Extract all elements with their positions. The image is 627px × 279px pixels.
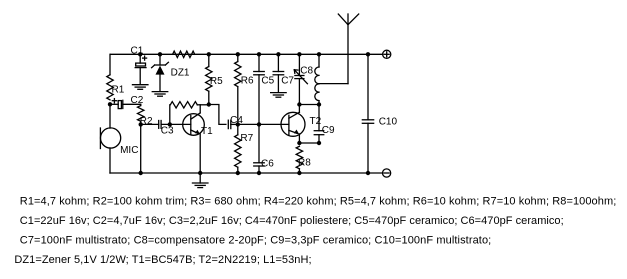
svg-text:DZ1=Zener 5,1V 1/2W; T1=BC547B: DZ1=Zener 5,1V 1/2W; T1=BC547B; T2=2N221… (14, 254, 311, 266)
node C1 top (138, 52, 142, 56)
ground DZ1 (152, 92, 168, 97)
label R7 (240, 133, 253, 144)
wire R6 bottom (237, 87, 239, 125)
antenna (319, 14, 359, 84)
node C10 top (366, 52, 370, 56)
node R2 gnd (139, 171, 143, 175)
wire collector node (299, 104, 319, 106)
wire C1 lead (139, 54, 141, 63)
svg-text:T2: T2 (310, 116, 322, 127)
label DZ1 (171, 67, 190, 78)
label T2 (310, 116, 322, 127)
svg-text:C10: C10 (379, 117, 398, 128)
svg-text:C3: C3 (161, 126, 174, 137)
label C8 (300, 66, 313, 77)
wire C4 step (209, 105, 226, 125)
wire T2 emitter (298, 134, 300, 143)
node R2/C3 (139, 122, 143, 126)
svg-text:R8: R8 (298, 157, 311, 168)
ground C7 (271, 93, 287, 98)
wire left top (109, 54, 111, 75)
label R5 (210, 76, 223, 87)
resistor R8 (296, 146, 302, 169)
capacitor C2 (110, 100, 141, 108)
svg-text:DZ1: DZ1 (171, 67, 190, 78)
wire C6 top (258, 124, 260, 162)
wire C7 gnd lead (277, 75, 279, 93)
label C3 (161, 126, 174, 137)
battery terminal - (383, 169, 391, 177)
wire T1 collector (199, 105, 201, 113)
node C6 gnd (257, 171, 261, 175)
label T1 (201, 126, 213, 137)
node R4 base (168, 122, 172, 126)
capacitor C10 (362, 120, 373, 124)
node R8 gnd (297, 171, 301, 175)
microphone MIC (100, 128, 120, 149)
wire C7 lead (277, 54, 279, 71)
resistor R6 (235, 62, 241, 87)
capacitor C4 (228, 120, 238, 128)
wire C8 bottom (298, 79, 300, 105)
wire R1 to MIC (109, 104, 111, 128)
wire C9 bottom (318, 135, 320, 143)
wire R6 lead (237, 54, 239, 61)
trimmer C8 (294, 70, 307, 84)
capacitor C9 (314, 131, 324, 135)
transistor T2 (281, 112, 305, 136)
wire T1 emitter (199, 134, 201, 173)
label parts list line 3 (20, 235, 492, 247)
wire C5 bottom (258, 75, 260, 125)
svg-text:C1: C1 (131, 45, 144, 56)
label parts list line 2 (20, 215, 564, 227)
label C5 (261, 75, 274, 86)
wire R8 bottom (298, 169, 300, 173)
wire top rail (110, 53, 382, 55)
battery terminal + (383, 50, 391, 58)
node R5 top (207, 52, 211, 56)
wire L1 lead (318, 54, 320, 67)
resistor R5 (206, 67, 212, 92)
label C6 (261, 158, 274, 169)
label C9 (322, 125, 335, 136)
wire C5 lead (258, 54, 260, 71)
resistor R7 (235, 135, 241, 168)
label R1 (112, 84, 125, 95)
node R1/C2/MIC (108, 102, 112, 106)
node R6 top (236, 52, 240, 56)
label R8 (298, 157, 311, 168)
node L1 top (317, 52, 321, 56)
svg-text:R1: R1 (112, 84, 125, 95)
capacitor C1 (135, 63, 146, 84)
wire C10 bottom lead (367, 123, 369, 173)
svg-text:C7: C7 (281, 75, 294, 86)
svg-text:MIC: MIC (120, 145, 138, 156)
svg-text:C8: C8 (300, 66, 313, 77)
label R2 (140, 116, 153, 127)
label MIC (120, 145, 138, 156)
wire R5 bottom (208, 91, 210, 104)
wire L1 bottom (318, 101, 320, 105)
svg-text:T1: T1 (201, 126, 213, 137)
label C7 (281, 75, 294, 86)
node C9 bottom (317, 141, 321, 145)
svg-text:R1=4,7 kohm; R2=100 kohm trim;: R1=4,7 kohm; R2=100 kohm trim; R3= 680 o… (20, 195, 617, 207)
capacitor C6 (254, 163, 265, 166)
wire T2 base (238, 123, 289, 125)
label parts list line 1 (20, 195, 617, 207)
node C10 gnd (366, 171, 370, 175)
node C7 top (276, 52, 280, 56)
capacitor C5 (254, 72, 265, 75)
label C2 plus (112, 99, 116, 103)
resistor R3 (173, 51, 195, 57)
wire R5 lead (208, 54, 210, 66)
capacitor C3 (141, 121, 191, 129)
wire R2 bottom (140, 121, 142, 173)
capacitor C7 (273, 72, 284, 75)
wire C2 corner (140, 104, 142, 105)
node C5 base (257, 122, 261, 126)
node T2 emitter (297, 141, 301, 145)
zener DZ1 (152, 62, 169, 91)
svg-text:C7=100nF multistrato; C8=compe: C7=100nF multistrato; C8=compensatore 2-… (20, 235, 492, 247)
wire MIC to rail (109, 148, 111, 173)
svg-text:R5: R5 (210, 76, 223, 87)
node R6/R7 base (236, 122, 240, 126)
node C8 top (297, 52, 301, 56)
node DZ1 top (158, 52, 162, 56)
node L1 bottom (317, 102, 321, 106)
wire emitter link (299, 142, 319, 144)
label parts list line 4 (14, 254, 311, 266)
svg-text:R7: R7 (240, 133, 253, 144)
wire bottom rail (110, 172, 383, 174)
inductor L1 (315, 67, 319, 101)
node R7 gnd (236, 171, 240, 175)
resistor R2 (138, 106, 144, 122)
wire R7 top (237, 124, 239, 134)
node C5 top (257, 52, 261, 56)
node T1 emitter gnd (198, 171, 202, 175)
node T2 collector (297, 102, 301, 106)
wire C6 bottom (258, 166, 260, 173)
ground T1 (192, 173, 208, 188)
ground C1 (132, 85, 148, 90)
label C10 (379, 117, 398, 128)
label C1 (131, 45, 144, 56)
resistor R4 (170, 102, 209, 125)
svg-text:C6: C6 (261, 158, 274, 169)
svg-text:C9: C9 (322, 125, 335, 136)
wire C10 top lead (367, 54, 369, 120)
svg-text:C2: C2 (131, 95, 144, 106)
label C4 (230, 115, 243, 126)
wire C8 lead (298, 54, 300, 75)
label C1 plus (143, 56, 147, 60)
wire C9 top (318, 105, 320, 131)
wire T2 collector (298, 105, 300, 113)
node T1 collector (207, 102, 211, 106)
label C2 (131, 95, 144, 106)
svg-text:C1=22uF 16v; C2=4,7uF 16v; C3=: C1=22uF 16v; C2=4,7uF 16v; C3=2,2uF 16v;… (20, 215, 564, 227)
label R6 (241, 75, 254, 86)
svg-text:R6: R6 (241, 75, 254, 86)
svg-text:C5: C5 (261, 75, 274, 86)
resistor R1 (107, 75, 113, 100)
wire DZ1 lead (159, 54, 161, 65)
wire R7 bottom (237, 167, 239, 173)
transistor T1 (183, 113, 205, 135)
